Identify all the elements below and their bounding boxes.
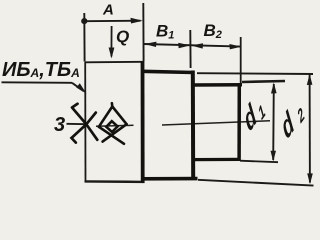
leader from 3 (67, 123, 87, 125)
middle step top edge (thick) (142, 71, 194, 72)
B1 left arrow (144, 42, 156, 47)
d2 up arrow (307, 74, 313, 85)
d2 down arrow (307, 173, 313, 184)
B2 left arrow (191, 43, 203, 48)
middle step bottom edge (thick) (142, 177, 198, 181)
left big step bottom edge (85, 180, 145, 183)
right step top edge (thick) (193, 83, 243, 87)
extension line A right (142, 3, 144, 61)
d2 top extension (197, 72, 313, 75)
dimension A arrow (131, 18, 143, 24)
B1 right arrow (178, 43, 190, 48)
d1 top extension (242, 81, 285, 82)
leader to left face (72, 83, 84, 91)
left big step right edge (machined, thick) (141, 61, 145, 183)
dimension A dot (81, 18, 87, 24)
svg-text:A: A (102, 2, 114, 19)
bottom long extension line (d2) (198, 180, 314, 186)
left big step top edge (85, 61, 143, 64)
underline of IBa,TBa (2, 81, 73, 84)
middle step right edge (thick) (191, 71, 195, 181)
paper background (0, 0, 314, 195)
extension line between B1 and B2 (189, 30, 191, 68)
diamond symbol (99, 103, 127, 144)
svg-text:ИБА,ТБА: ИБА,ТБА (2, 59, 80, 81)
d1 dimension line (272, 84, 275, 160)
d1 up arrow (271, 83, 277, 94)
dimension line B1-B2 (144, 44, 241, 47)
left big step outline: left edge (84, 62, 86, 183)
svg-text:Q: Q (116, 27, 129, 46)
leader arrowhead (76, 83, 86, 93)
svg-text:3: 3 (54, 114, 65, 136)
B2 right arrow (229, 44, 241, 49)
d1 bottom extension (240, 161, 278, 163)
X surface mark (72, 104, 98, 143)
force arrow Q (110, 26, 112, 57)
right step bottom edge (thick) (193, 158, 241, 162)
centerline (96, 121, 270, 126)
d1 down arrow (271, 151, 277, 162)
dimension A line (84, 20, 140, 23)
d2 dimension line (309, 75, 311, 183)
extension line A left (83, 13, 85, 62)
extension line B2 right (240, 37, 242, 83)
right step right edge (thick) (237, 84, 241, 161)
